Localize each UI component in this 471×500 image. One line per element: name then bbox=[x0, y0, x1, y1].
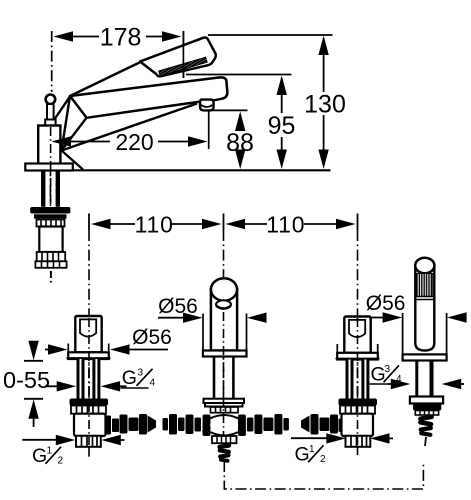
lever grip hatch strip bbox=[159, 57, 207, 76]
svg-text:Ø56: Ø56 bbox=[132, 326, 172, 349]
lever handle bbox=[140, 37, 216, 76]
left valve flange bbox=[68, 352, 109, 359]
left valve handle recess bbox=[80, 319, 96, 336]
reference line 95 bbox=[186, 74, 292, 76]
left valve washer bbox=[70, 399, 109, 406]
diameter 56 left outside arrow bbox=[45, 349, 53, 351]
shower wand body bbox=[415, 267, 434, 351]
svg-text:G: G bbox=[122, 367, 137, 389]
centerline overlay faucet column bbox=[50, 127, 52, 205]
left valve shank walls bbox=[77, 359, 85, 399]
dimension 178 extension line right bbox=[182, 31, 184, 78]
knob rod collar bbox=[45, 120, 55, 127]
right valve handle recess bbox=[349, 320, 365, 337]
tick center bbox=[223, 214, 225, 231]
center dome cylinder bbox=[211, 290, 237, 351]
knob rod bbox=[47, 104, 54, 120]
black washer band 2 bbox=[34, 214, 67, 218]
right valve flange rim extension right bbox=[377, 344, 379, 353]
hose right chain bbox=[247, 414, 346, 435]
centerline overlay center column bbox=[223, 312, 225, 436]
centerline center column bbox=[223, 230, 225, 440]
right valve bottom nut bbox=[346, 436, 371, 447]
dimension 178 extension line left (dash-dot) bbox=[51, 31, 53, 92]
left valve flange rim extension left bbox=[67, 344, 69, 353]
spout lever join edge bbox=[70, 63, 140, 97]
shower shank walls bbox=[415, 361, 418, 397]
diameter 56 shower arrows bbox=[369, 317, 387, 319]
baseline mounting surface bbox=[25, 169, 331, 171]
temperature knob ball bbox=[46, 95, 56, 105]
hose left chain bbox=[105, 414, 202, 435]
0-55 dimension ticks bbox=[24, 360, 43, 362]
G 3/4 right label bbox=[370, 364, 403, 386]
G 1/2 left arrows bbox=[22, 439, 59, 441]
svg-text:2: 2 bbox=[320, 454, 326, 465]
svg-text:178: 178 bbox=[100, 24, 142, 52]
G 3/4 left arrows bbox=[45, 385, 61, 387]
column flange bbox=[25, 164, 73, 171]
left valve side port rings bbox=[105, 416, 112, 435]
center T left ring bbox=[203, 415, 211, 437]
shower base plate bbox=[403, 354, 447, 360]
G 1/2 right arrows bbox=[291, 437, 330, 439]
reference line top (130) bbox=[208, 34, 333, 36]
shower grip lower band bbox=[416, 296, 434, 298]
center knurled ring bbox=[211, 407, 239, 413]
center shank walls bbox=[213, 357, 216, 399]
svg-text:0-55: 0-55 bbox=[3, 367, 50, 393]
center T bottom nut bbox=[212, 436, 237, 443]
center T right ring bbox=[238, 415, 246, 437]
svg-text:G: G bbox=[32, 445, 47, 467]
dimension 178 left arrowhead bbox=[54, 31, 74, 41]
center dome top ellipse bbox=[211, 278, 237, 301]
dimension 178 line left segment bbox=[70, 36, 99, 38]
shank tube below deck left wall bbox=[41, 171, 45, 207]
dimension 130 vertical line bbox=[323, 38, 325, 92]
right valve knurled nut bbox=[340, 406, 375, 414]
valve cartridge body bbox=[39, 227, 62, 253]
knurled ring top column bbox=[37, 220, 65, 227]
right valve flange rim extension left bbox=[336, 344, 338, 353]
thread block row 2 bbox=[35, 261, 66, 268]
right valve shank walls bbox=[346, 360, 354, 399]
center spiral hose tail bbox=[217, 443, 232, 463]
center T ball bbox=[210, 415, 238, 436]
shank tube below deck right wall bbox=[56, 171, 60, 207]
dimension 178 right arrowhead bbox=[162, 31, 182, 41]
centerline overlay right valve bbox=[357, 318, 359, 445]
left valve bottom nut bbox=[76, 436, 101, 447]
diameter 56 left leader bbox=[126, 349, 168, 351]
left valve body bbox=[74, 414, 106, 436]
dim 110 first line/arrows/text bbox=[91, 219, 111, 229]
shower flange bbox=[410, 397, 443, 404]
center stub below column bbox=[50, 271, 52, 283]
black washer band 1 bbox=[30, 207, 70, 214]
thread block row 1 bbox=[37, 252, 65, 261]
dimension 110 second bbox=[226, 219, 246, 229]
dimension 88 vertical line bbox=[239, 114, 241, 131]
spout back edge to rod bbox=[52, 96, 70, 122]
svg-text:1: 1 bbox=[309, 444, 315, 455]
svg-text:4: 4 bbox=[150, 378, 156, 389]
centerline left valve bbox=[88, 230, 90, 458]
shower hose routing dash-dot bbox=[224, 461, 423, 489]
G 3/4 right arrows bbox=[388, 383, 396, 385]
faucet centerline top bbox=[49, 126, 51, 206]
right valve body bbox=[342, 414, 374, 436]
center extension lines bbox=[202, 314, 204, 352]
svg-text:Ø56: Ø56 bbox=[366, 292, 406, 315]
svg-text:4: 4 bbox=[396, 374, 402, 385]
reference line 88 bbox=[208, 109, 247, 111]
dome outlet slot bbox=[216, 300, 231, 309]
spout outlet aerator bbox=[200, 100, 214, 111]
shower grip crosshatch bbox=[417, 274, 433, 297]
G 3/4 left label bbox=[121, 367, 156, 389]
shower wand top rim ellipse bbox=[415, 258, 434, 274]
svg-text:1: 1 bbox=[47, 446, 53, 457]
left valve knurled nut bbox=[71, 406, 106, 414]
shower hose tail line bbox=[425, 437, 426, 446]
spout bottom edge bbox=[62, 104, 198, 151]
svg-text:3: 3 bbox=[138, 368, 144, 379]
shower extension lines bbox=[402, 313, 404, 354]
spout outlet inner arc bbox=[201, 105, 213, 107]
right valve flange bbox=[337, 353, 378, 360]
svg-text:110: 110 bbox=[135, 212, 174, 238]
svg-text:Ø56: Ø56 bbox=[158, 295, 198, 318]
spout hidden lower edge bbox=[62, 151, 84, 170]
svg-text:130: 130 bbox=[304, 90, 346, 118]
svg-text:G: G bbox=[295, 444, 310, 466]
diameter 56 center leader bbox=[158, 317, 187, 319]
spout left wedge bbox=[62, 96, 87, 151]
left valve handle bbox=[75, 316, 101, 352]
centerline right valve bbox=[357, 230, 359, 455]
dimension 220 extension line right bbox=[208, 111, 210, 149]
0-55 bottom arrow bbox=[28, 399, 38, 419]
0-55 top arrow bbox=[33, 344, 35, 347]
left valve flange rim extension right bbox=[108, 344, 110, 353]
center plate 1 bbox=[204, 399, 245, 403]
G 1/2 right label bbox=[295, 444, 327, 466]
dimension 95 vertical line bbox=[281, 78, 283, 113]
dimension 110 first: tick left bbox=[88, 214, 90, 231]
svg-text:2: 2 bbox=[58, 456, 64, 467]
svg-text:110: 110 bbox=[266, 212, 305, 238]
tick right bbox=[357, 214, 359, 231]
dimension 220 line bbox=[66, 141, 110, 143]
right valve handle bbox=[344, 317, 370, 353]
dimension 178 extension line right overdrawn bbox=[182, 31, 184, 78]
dimension 220 left arrowhead over column bbox=[52, 136, 72, 146]
centerline overlay left valve bbox=[88, 318, 90, 445]
spout body slab bbox=[70, 77, 227, 117]
svg-text:3: 3 bbox=[385, 364, 391, 375]
dimension 178 line right segment bbox=[146, 36, 165, 38]
shower spiral hose bbox=[418, 414, 435, 437]
shower knurled ring bbox=[415, 411, 438, 416]
shower black band bbox=[413, 404, 441, 411]
svg-text:95: 95 bbox=[268, 112, 296, 140]
center plate 2 bbox=[205, 403, 243, 407]
G 1/2 left label bbox=[32, 445, 64, 467]
center base plate bbox=[203, 351, 247, 357]
svg-text:220: 220 bbox=[115, 129, 153, 155]
right valve washer bbox=[339, 399, 378, 406]
valve column bbox=[38, 126, 60, 165]
